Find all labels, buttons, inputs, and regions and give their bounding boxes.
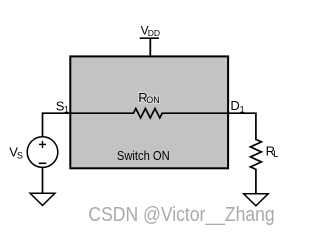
- svg-text:DD: DD: [148, 28, 160, 38]
- svg-text:L: L: [273, 149, 278, 159]
- svg-text:ON: ON: [146, 95, 160, 105]
- svg-text:CSDN @Victor__Zhang: CSDN @Victor__Zhang: [88, 204, 274, 226]
- svg-text:S: S: [17, 150, 23, 160]
- svg-text:1: 1: [64, 105, 69, 115]
- svg-text:D: D: [230, 98, 239, 113]
- svg-text:1: 1: [240, 104, 245, 114]
- svg-text:Switch ON: Switch ON: [117, 148, 170, 163]
